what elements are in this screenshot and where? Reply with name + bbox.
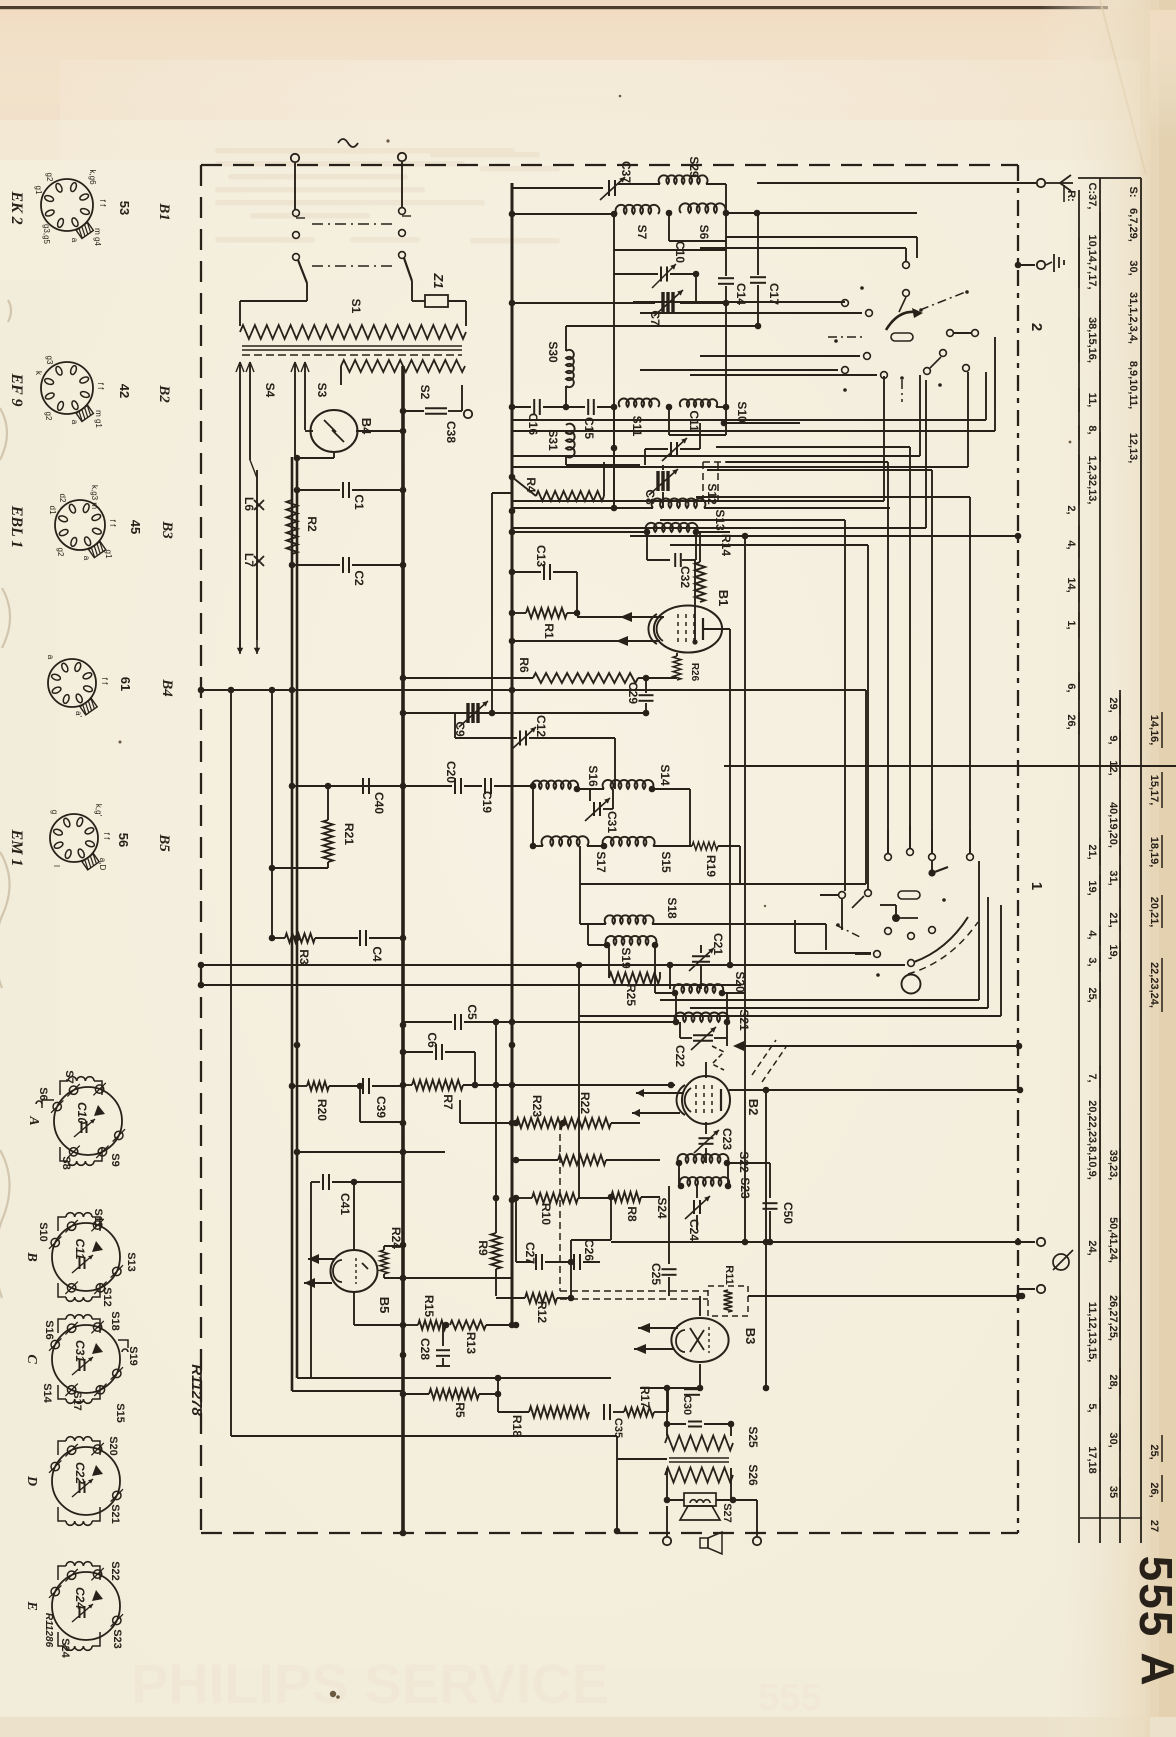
svg-text:5,: 5, bbox=[1086, 1403, 1098, 1412]
wire bbox=[666, 1506, 668, 1537]
svg-text:S31: S31 bbox=[546, 429, 560, 451]
svg-text:g1: g1 bbox=[34, 186, 43, 195]
svg-text:S8: S8 bbox=[60, 1156, 72, 1169]
rotor hub bbox=[902, 975, 921, 994]
svg-text:B3: B3 bbox=[159, 520, 175, 539]
table column line 4 bbox=[1119, 690, 1121, 1543]
screen bus bbox=[511, 183, 514, 1325]
switch contact bbox=[864, 353, 871, 360]
resistor R7 bbox=[412, 1080, 463, 1090]
capacitor C2 bbox=[292, 564, 340, 566]
dashed gang link bbox=[702, 462, 704, 500]
svg-text:k,g3 m: k,g3 m bbox=[90, 485, 99, 509]
coil S22 bbox=[678, 1154, 729, 1163]
coil pack A bbox=[54, 1087, 122, 1155]
svg-text:R11278: R11278 bbox=[188, 1364, 205, 1416]
svg-text:18,19,: 18,19, bbox=[1148, 837, 1160, 868]
coil box S10 bbox=[668, 407, 670, 435]
grid arrow B3 a bbox=[638, 1327, 678, 1329]
svg-text:26,27,25,: 26,27,25, bbox=[1107, 1295, 1119, 1341]
wire bbox=[294, 163, 296, 209]
wire bbox=[512, 500, 884, 502]
svg-text:14,16,: 14,16, bbox=[1148, 715, 1160, 746]
capacitor C23 bbox=[705, 1122, 707, 1134]
socket B2 EF9 bbox=[41, 362, 93, 414]
svg-text:R10: R10 bbox=[539, 1203, 553, 1225]
wire bbox=[512, 302, 655, 304]
svg-text:26,: 26, bbox=[1148, 1482, 1160, 1497]
svg-text:2: 2 bbox=[1028, 323, 1045, 331]
coil S23 bbox=[680, 1177, 730, 1186]
svg-text:S17: S17 bbox=[594, 851, 608, 873]
variable capacitor C11 bbox=[670, 442, 672, 456]
svg-text:8,: 8, bbox=[1086, 425, 1098, 434]
svg-text:C41: C41 bbox=[338, 1193, 352, 1215]
mains terminal left bbox=[291, 154, 299, 162]
switch contact bbox=[908, 960, 915, 967]
svg-text:19,: 19, bbox=[1107, 944, 1119, 959]
svg-text:C24: C24 bbox=[687, 1219, 701, 1241]
wire bbox=[667, 1499, 684, 1501]
svg-text:30,: 30, bbox=[1107, 1432, 1119, 1447]
capacitor C30 bbox=[640, 1387, 684, 1389]
switch S28 left pole bbox=[293, 210, 300, 217]
svg-text:S22: S22 bbox=[737, 1151, 751, 1173]
svg-text:C5: C5 bbox=[465, 1004, 479, 1020]
svg-text:20,21,: 20,21, bbox=[1148, 897, 1160, 928]
switch contact bbox=[907, 849, 914, 856]
svg-text:R26: R26 bbox=[689, 663, 700, 682]
svg-text:R11: R11 bbox=[723, 1265, 735, 1285]
svg-text:S23: S23 bbox=[738, 1177, 752, 1199]
svg-text:S9: S9 bbox=[109, 1153, 121, 1166]
output transformer core bbox=[669, 1457, 729, 1459]
wire nest e bbox=[660, 519, 845, 521]
capacitor C41 bbox=[311, 1181, 320, 1183]
bus b dots bbox=[289, 562, 296, 569]
resistor R22 bbox=[563, 1118, 611, 1128]
svg-text:C50: C50 bbox=[781, 1202, 795, 1224]
wire bbox=[292, 785, 452, 787]
svg-text:S24: S24 bbox=[59, 1638, 71, 1658]
wire bbox=[231, 1435, 617, 1437]
svg-text:R25: R25 bbox=[624, 984, 638, 1006]
svg-text:Z1: Z1 bbox=[431, 272, 446, 288]
wire bbox=[353, 1292, 355, 1325]
capacitor C15 bbox=[566, 406, 585, 408]
svg-text:S4: S4 bbox=[263, 383, 277, 398]
coil S17 bbox=[542, 836, 589, 846]
mains terminal right bbox=[398, 153, 406, 161]
svg-text:R23: R23 bbox=[530, 1095, 544, 1117]
resistor R3 bbox=[272, 937, 285, 939]
coil pack C side coil bbox=[118, 1340, 128, 1348]
switch contact bbox=[881, 372, 888, 379]
dash-dot link bbox=[828, 336, 864, 338]
svg-text:S11: S11 bbox=[92, 1209, 104, 1228]
wire bbox=[497, 1378, 499, 1394]
coil S7 bbox=[512, 213, 617, 215]
svg-text:50,41,24,: 50,41,24, bbox=[1107, 1217, 1119, 1263]
svg-text:R15: R15 bbox=[422, 1295, 436, 1317]
svg-text:17,18: 17,18 bbox=[1086, 1446, 1098, 1474]
svg-text:31,: 31, bbox=[1107, 870, 1119, 885]
svg-text:f f: f f bbox=[96, 383, 105, 390]
capacitor C35 bbox=[603, 1404, 605, 1420]
svg-text:C11: C11 bbox=[687, 410, 701, 432]
switch contact bbox=[885, 928, 892, 935]
svg-text:g3,g5: g3,g5 bbox=[42, 224, 51, 245]
coil S19 bbox=[588, 944, 607, 946]
svg-text:1: 1 bbox=[1028, 882, 1045, 890]
svg-text:C38: C38 bbox=[444, 421, 458, 443]
capacitor C4 bbox=[359, 930, 361, 946]
svg-text:a: a bbox=[82, 556, 91, 561]
wire long bbox=[580, 1015, 1001, 1017]
wire long bbox=[739, 1045, 1019, 1047]
socket B4 bbox=[48, 659, 96, 707]
svg-text:g2: g2 bbox=[44, 412, 53, 421]
svg-text:S18: S18 bbox=[109, 1311, 121, 1331]
wire bbox=[694, 560, 696, 642]
svg-text:53: 53 bbox=[117, 201, 132, 215]
capacitor C38 bbox=[400, 408, 407, 415]
switch contact bbox=[963, 365, 970, 372]
svg-text:S13: S13 bbox=[125, 1252, 137, 1272]
svg-text:S24: S24 bbox=[655, 1197, 669, 1219]
svg-text:C32: C32 bbox=[678, 566, 692, 588]
arrow L6 wire end bbox=[239, 640, 241, 654]
AC symbol bbox=[338, 139, 358, 147]
wire bbox=[633, 301, 845, 303]
socket B5 EM1 bbox=[50, 814, 98, 862]
wire bbox=[1018, 1288, 1035, 1290]
coil S21 bbox=[675, 1013, 729, 1022]
table column line 3 bbox=[1078, 190, 1080, 1543]
svg-text:EBL 1: EBL 1 bbox=[8, 505, 25, 549]
switch contact bbox=[940, 350, 947, 357]
variable capacitor C12 bbox=[455, 737, 517, 739]
wire bbox=[613, 250, 615, 508]
antenna terminal bbox=[1037, 179, 1045, 187]
switch contact bbox=[924, 368, 931, 375]
coil box S13 bbox=[646, 532, 648, 560]
wire bbox=[613, 407, 615, 508]
wire bbox=[748, 1295, 1019, 1297]
chassis bus a bbox=[291, 457, 294, 1391]
svg-text:S30: S30 bbox=[546, 341, 560, 363]
table tick marks6 bbox=[1078, 525, 1080, 558]
winding S3 prongs bbox=[294, 362, 296, 457]
svg-text:C23: C23 bbox=[720, 1128, 734, 1150]
svg-text:7,: 7, bbox=[1086, 1073, 1098, 1082]
tube B1 heptode bbox=[654, 606, 722, 653]
wire bbox=[841, 899, 843, 930]
dash-dot diag2 bbox=[836, 925, 862, 938]
wire bbox=[384, 1245, 403, 1247]
terminal PU a bbox=[1037, 1238, 1045, 1246]
wire bbox=[700, 247, 906, 249]
wire long bbox=[201, 984, 741, 986]
svg-text:C25: C25 bbox=[649, 1263, 663, 1285]
wire bbox=[512, 466, 968, 468]
coil S6 bbox=[666, 210, 673, 217]
svg-text:25,: 25, bbox=[1086, 987, 1098, 1002]
svg-text:S14: S14 bbox=[658, 764, 672, 786]
switch pivot bbox=[898, 891, 920, 899]
resistor R17 bbox=[624, 1408, 654, 1417]
resistor R21 bbox=[327, 786, 329, 820]
capacitor C50 bbox=[769, 1163, 771, 1198]
svg-text:2,: 2, bbox=[1065, 505, 1077, 514]
coil S12 bbox=[512, 507, 653, 509]
svg-text:EK 2: EK 2 bbox=[8, 190, 25, 224]
coil box S22/S23 bbox=[678, 1163, 680, 1186]
svg-text:R7: R7 bbox=[441, 1094, 455, 1110]
grid arrow B5 b bbox=[304, 1282, 332, 1284]
coil S15 bbox=[587, 845, 604, 847]
svg-text:B5: B5 bbox=[377, 1297, 392, 1314]
variable capacitor C22 bbox=[679, 1022, 681, 1038]
svg-text:21,: 21, bbox=[1086, 844, 1098, 859]
svg-text:R2: R2 bbox=[305, 516, 319, 532]
switch contact bbox=[865, 890, 872, 897]
grid arrow B2 b bbox=[632, 1112, 680, 1114]
aux bus 2 bbox=[271, 690, 273, 938]
svg-text:1,2,32,13,: 1,2,32,13, bbox=[1086, 456, 1098, 505]
variable capacitor C10 bbox=[614, 273, 658, 275]
svg-text:R19: R19 bbox=[704, 855, 718, 877]
wire bbox=[565, 386, 567, 407]
variable capacitor C21 bbox=[700, 945, 702, 953]
resistor R14 bbox=[699, 532, 701, 562]
svg-text:8,9,10,11,: 8,9,10,11, bbox=[1127, 361, 1139, 409]
wire bbox=[916, 237, 918, 258]
svg-text:29,: 29, bbox=[1107, 697, 1119, 712]
svg-text:f f: f f bbox=[108, 520, 117, 527]
switch contact bbox=[885, 854, 892, 861]
resistor R1 bbox=[509, 610, 516, 617]
coil S14 bbox=[603, 780, 654, 789]
svg-text:S21: S21 bbox=[737, 1009, 751, 1031]
svg-text:C10: C10 bbox=[75, 1102, 89, 1124]
transformer primary S25 bbox=[666, 1388, 668, 1424]
capacitor C25 bbox=[668, 1186, 670, 1264]
svg-text:R9: R9 bbox=[476, 1240, 490, 1256]
switch contact bbox=[929, 854, 936, 861]
capacitor C1 bbox=[297, 489, 340, 491]
wire bbox=[356, 430, 403, 432]
svg-text:11,12,13,15,: 11,12,13,15, bbox=[1086, 1302, 1098, 1363]
svg-text:S:: S: bbox=[1127, 187, 1139, 198]
svg-text:12,: 12, bbox=[1107, 760, 1119, 775]
capacitor C16 bbox=[512, 406, 531, 408]
svg-text:EM 1: EM 1 bbox=[8, 829, 25, 867]
svg-text:26,: 26, bbox=[1065, 714, 1077, 729]
socket B1 EK2 bbox=[41, 179, 93, 231]
wire bbox=[987, 897, 989, 1008]
wire bbox=[725, 184, 727, 214]
resistor R11 dashed box bbox=[708, 1286, 748, 1316]
transformer primary S1 bbox=[239, 301, 241, 326]
svg-text:D: D bbox=[24, 1475, 39, 1486]
coil S11 bbox=[619, 398, 660, 407]
resistor R9 bbox=[495, 1022, 497, 1233]
svg-text:S27: S27 bbox=[721, 1503, 733, 1523]
svg-text:m g1: m g1 bbox=[94, 410, 103, 428]
svg-text:S3: S3 bbox=[315, 383, 329, 398]
svg-text:E: E bbox=[24, 1600, 39, 1610]
svg-text:B1: B1 bbox=[156, 202, 172, 221]
switch pivot bbox=[891, 333, 913, 341]
capacitor C26 bbox=[573, 1254, 575, 1270]
table tick marks4 bbox=[1119, 695, 1121, 715]
svg-text:38,15,16,: 38,15,16, bbox=[1086, 317, 1098, 363]
svg-text:C20: C20 bbox=[444, 761, 458, 783]
switch contact bbox=[972, 330, 979, 337]
table tick marks2 bbox=[1078, 238, 1080, 288]
svg-text:35: 35 bbox=[1107, 1486, 1119, 1498]
svg-text:14,: 14, bbox=[1065, 577, 1077, 592]
svg-text:R22: R22 bbox=[578, 1092, 592, 1114]
svg-text:C8: C8 bbox=[643, 489, 657, 505]
svg-text:S18: S18 bbox=[665, 897, 679, 919]
svg-text:42: 42 bbox=[117, 384, 132, 398]
svg-text:22,23,24,: 22,23,24, bbox=[1148, 962, 1160, 1008]
resistor R2 bbox=[287, 500, 298, 554]
svg-text:S16: S16 bbox=[586, 765, 600, 787]
resistor R15 bbox=[403, 1324, 418, 1326]
screen bus dots bbox=[509, 211, 516, 218]
earth terminal bbox=[1037, 261, 1045, 269]
svg-text:C12: C12 bbox=[534, 715, 548, 737]
svg-text:C39: C39 bbox=[374, 1096, 388, 1118]
coil S10 bbox=[680, 399, 717, 407]
trimmer C8 bbox=[662, 465, 664, 470]
switch contact bbox=[866, 310, 873, 317]
svg-text:C37: C37 bbox=[619, 161, 633, 183]
svg-text:EF 9: EF 9 bbox=[8, 372, 25, 406]
wire bbox=[240, 300, 307, 302]
HT bus (thick) bbox=[401, 366, 405, 1533]
svg-text:R12: R12 bbox=[535, 1301, 549, 1323]
resistor R18 bbox=[498, 1411, 529, 1413]
svg-text:B2: B2 bbox=[746, 1099, 761, 1116]
coil S20 bbox=[674, 984, 724, 993]
resistor R8 bbox=[611, 1192, 641, 1202]
grid arrow B2 a bbox=[636, 1092, 684, 1094]
feeder line bbox=[492, 492, 512, 494]
terminal PU b bbox=[1037, 1285, 1045, 1293]
svg-text:R4: R4 bbox=[524, 477, 538, 493]
svg-text:a: a bbox=[70, 420, 79, 425]
table R underline bbox=[1063, 185, 1065, 202]
svg-text:PHILIPS SERVICE: PHILIPS SERVICE bbox=[131, 1652, 609, 1715]
wire C37 line bbox=[512, 187, 603, 189]
svg-text:S20: S20 bbox=[733, 971, 747, 993]
resistor R26 bbox=[676, 653, 678, 656]
svg-text:C13: C13 bbox=[534, 545, 548, 567]
speaker voice coil S27 bbox=[684, 1493, 716, 1506]
svg-text:B2: B2 bbox=[156, 384, 172, 403]
resistor R10 bbox=[516, 1197, 532, 1199]
wire long bbox=[630, 535, 1018, 537]
wire bbox=[739, 846, 741, 884]
grid arrow B1 a bbox=[577, 616, 664, 618]
wire bbox=[512, 419, 986, 421]
svg-text:g: g bbox=[50, 810, 59, 814]
table tick marks7 bbox=[1099, 838, 1101, 865]
svg-text:C31: C31 bbox=[73, 1340, 87, 1362]
wire long bbox=[201, 689, 866, 691]
table tick marks8 bbox=[1099, 1065, 1101, 1088]
wire bbox=[726, 212, 757, 214]
svg-text:15,17,: 15,17, bbox=[1148, 775, 1160, 806]
wire bbox=[353, 1182, 355, 1250]
svg-text:C:37,: C:37, bbox=[1086, 183, 1098, 210]
wire nest f bbox=[670, 544, 868, 546]
speaker terminal a bbox=[663, 1537, 671, 1545]
svg-text:R18: R18 bbox=[510, 1415, 524, 1437]
antenna wire bbox=[757, 182, 1036, 184]
svg-text:S23: S23 bbox=[111, 1629, 123, 1649]
switch contact bbox=[839, 892, 846, 899]
svg-text:l: l bbox=[52, 865, 61, 867]
wire bbox=[1000, 905, 1002, 1016]
svg-text:C21: C21 bbox=[711, 933, 725, 955]
svg-text:R20: R20 bbox=[315, 1099, 329, 1121]
svg-text:C26: C26 bbox=[582, 1239, 596, 1261]
fuse Z1 bbox=[412, 300, 425, 302]
switch contact bbox=[947, 330, 954, 337]
wire bbox=[305, 430, 313, 432]
svg-text:S19: S19 bbox=[127, 1346, 139, 1366]
wire bbox=[660, 1387, 700, 1389]
wire bbox=[565, 456, 567, 465]
resistor R6 bbox=[403, 677, 533, 679]
svg-text:R11286: R11286 bbox=[43, 1613, 54, 1648]
coil S18 bbox=[580, 923, 606, 925]
wire B2 anode bbox=[765, 1090, 767, 1388]
wire bbox=[512, 455, 920, 457]
svg-text:S6: S6 bbox=[697, 225, 711, 240]
svg-text:f f: f f bbox=[98, 200, 107, 207]
svg-text:g1: g1 bbox=[104, 550, 113, 559]
svg-text:A: A bbox=[1132, 1652, 1176, 1685]
svg-text:R8: R8 bbox=[625, 1206, 639, 1222]
wire bbox=[566, 325, 758, 327]
svg-text:B5: B5 bbox=[156, 833, 172, 852]
svg-text:f f: f f bbox=[100, 678, 109, 685]
capacitor C19 bbox=[484, 778, 486, 794]
pickup symbol bbox=[1053, 1254, 1069, 1270]
capacitor C29 bbox=[645, 678, 647, 693]
variable capacitor C37 bbox=[608, 180, 610, 196]
svg-text:C40: C40 bbox=[372, 792, 386, 814]
left page-edge marks bbox=[0, 300, 11, 1298]
wire bbox=[654, 945, 656, 993]
trimmer C9 bbox=[466, 703, 469, 723]
svg-text:d2: d2 bbox=[58, 494, 67, 503]
svg-text:45: 45 bbox=[128, 520, 143, 534]
svg-text:C31: C31 bbox=[605, 811, 619, 833]
svg-text:S6: S6 bbox=[37, 1087, 49, 1100]
svg-text:g2: g2 bbox=[45, 173, 54, 182]
wire bbox=[579, 846, 581, 884]
svg-text:25,: 25, bbox=[1148, 1444, 1160, 1459]
capacitor C40 bbox=[362, 778, 364, 794]
svg-text:R17: R17 bbox=[638, 1386, 652, 1408]
